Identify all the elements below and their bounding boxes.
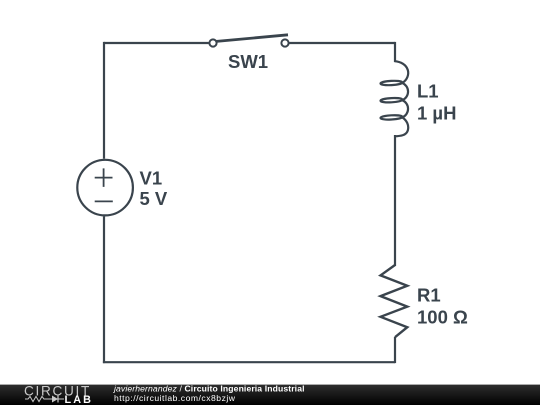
svg-text:5 V: 5 V <box>140 188 168 209</box>
wire top-left segment <box>104 42 209 44</box>
wire top-right segment <box>289 42 395 44</box>
svg-text:SW1: SW1 <box>228 51 268 72</box>
wire left rail lower <box>103 217 105 364</box>
svg-text:L1: L1 <box>417 81 439 102</box>
wire left rail upper <box>103 42 105 159</box>
svg-text:LAB: LAB <box>65 394 94 405</box>
wire bottom segment <box>103 361 395 363</box>
logo diode <box>47 396 64 403</box>
switch SW1 <box>209 35 288 47</box>
inductor L1 <box>380 61 408 136</box>
svg-text:100 Ω: 100 Ω <box>417 307 468 328</box>
voltage source V1 <box>77 160 133 216</box>
footer bar <box>0 385 540 405</box>
svg-text:javierhernandez / Circuito Ing: javierhernandez / Circuito Ingenieria In… <box>113 383 305 393</box>
svg-text:1 µH: 1 µH <box>417 103 456 124</box>
wire right rail upper <box>394 42 396 62</box>
resistor R1 <box>381 265 408 337</box>
svg-text:R1: R1 <box>417 285 441 306</box>
svg-text:V1: V1 <box>140 167 163 188</box>
wire right rail middle <box>394 135 396 266</box>
svg-text:http://circuitlab.com/cx8bzjw: http://circuitlab.com/cx8bzjw <box>114 393 236 403</box>
logo resistor zigzag <box>25 396 47 401</box>
wire right rail lower <box>394 337 396 363</box>
